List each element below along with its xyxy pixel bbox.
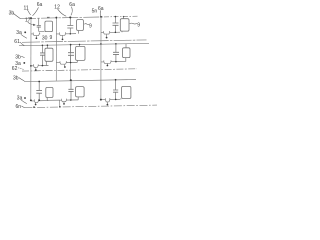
transistor Q11 (31, 32, 40, 35)
junction dots (30, 16, 117, 108)
node C32-L3c (70, 79, 72, 81)
svg-text:3b: 3b (15, 55, 21, 61)
leader 3b row3 (19, 78, 24, 81)
svg-text:9: 9 (89, 23, 92, 29)
gate Q33 (107, 104, 109, 106)
leader 6n (22, 106, 25, 108)
node C22-L2b (70, 44, 72, 46)
node 3a row1 dot (24, 31, 26, 33)
capacitor C32 (71, 80, 78, 100)
node 3a row3 dot (24, 97, 26, 99)
cell box 21 (45, 48, 53, 61)
box 13 top stub (123, 17, 125, 19)
node V2-L1 (55, 17, 57, 19)
leader 3a row1 (21, 34, 27, 38)
squiggle 9 col3 (130, 22, 137, 25)
box 12 bottom stub (78, 31, 80, 34)
node C12-L1 (69, 16, 71, 18)
box 21 top stub (46, 45, 48, 48)
leader 61 (20, 42, 24, 46)
node conn22-L3c (70, 79, 72, 81)
node C23-L2b (115, 43, 117, 45)
bit line V2 (55, 18, 57, 81)
node C31-L3c (38, 81, 40, 83)
capacitor C33 (116, 80, 121, 100)
connector row3 to L4 (59, 100, 61, 107)
cell box 31 (46, 87, 53, 97)
word line pair lower (L2b) (19, 43, 149, 45)
svg-text:61: 61 (14, 39, 20, 45)
box 21 bottom stub (45, 61, 47, 65)
box 31 bottom stub (47, 98, 59, 101)
leader 11 (27, 10, 30, 15)
gate Q13 (106, 37, 108, 39)
gate Q23 (107, 65, 109, 67)
transistor Q23 (101, 60, 116, 63)
leader 62 (18, 68, 23, 70)
node C12 wire (70, 33, 72, 35)
node L4 left (33, 106, 35, 108)
svg-text:62: 62 (12, 66, 18, 72)
gate Q11 (36, 37, 38, 39)
box 23 bottom stub (125, 58, 127, 62)
svg-text:30: 30 (42, 35, 48, 41)
bit line V1 (30, 18, 32, 101)
node 3a row2 dot (23, 62, 25, 64)
box 22 bottom stub (76, 60, 78, 62)
svg-text:6a: 6a (37, 2, 43, 8)
gate Q12 (62, 39, 64, 41)
squiggle 9 col2 (84, 23, 89, 26)
leader lines (13, 7, 137, 108)
node C13 wire (115, 32, 117, 34)
svg-text:3a: 3a (17, 96, 23, 102)
word line 3b (row1 top rail L1) (20, 17, 104, 19)
node box22-L2b (79, 44, 80, 45)
capacitor C22 (71, 45, 78, 63)
cell box 22 (76, 46, 85, 60)
node V3-L2b (100, 43, 102, 45)
svg-text:12: 12 (54, 4, 60, 10)
text labels (9, 2, 141, 110)
node V3 row3 (100, 99, 102, 101)
svg-text:6a: 6a (69, 2, 75, 8)
box 22 top stub (79, 44, 81, 46)
cell box 11 (45, 21, 53, 32)
node C13-L1 (115, 16, 117, 18)
word line pair upper (L2a) (22, 40, 147, 42)
cell box 13 (120, 19, 129, 31)
box 32 bottom stub (77, 97, 79, 100)
leader 17 (28, 22, 33, 25)
transistor Q22 (56, 61, 70, 64)
svg-text:5n: 5n (92, 8, 98, 14)
node C21-L2b (42, 45, 44, 47)
bottom line L4 (24, 105, 157, 108)
gate Q21 (35, 69, 37, 71)
node C23 wire (115, 61, 117, 63)
svg-text:9: 9 (137, 23, 140, 29)
node C33-L3c (115, 79, 117, 81)
leader 3b row2 (21, 56, 24, 57)
svg-text:3b: 3b (13, 76, 19, 82)
transistor Q31 (31, 99, 39, 102)
node C21 wire (42, 65, 44, 67)
gate Q32 (63, 103, 65, 105)
leader 6a col3 (99, 10, 102, 16)
svg-text:6n: 6n (16, 104, 22, 110)
node conn-L4 (59, 106, 61, 108)
cell box 23 (123, 48, 131, 58)
bit line V3 (100, 17, 102, 100)
node C22 wire (70, 62, 72, 64)
capacitor C11 (39, 18, 45, 31)
box 33 bottom stub (120, 98, 122, 99)
node box21-L2b (47, 44, 49, 46)
cell box 33 (122, 86, 131, 98)
node V1 row2 wire (30, 65, 32, 67)
capacitor C23 (116, 44, 126, 62)
transistor Q33 (101, 98, 116, 102)
rail L3c (24, 80, 136, 82)
node C32 wire (70, 99, 72, 101)
svg-text:9: 9 (50, 35, 53, 41)
connector row2 col2 to L3c (70, 45, 72, 81)
capacitor C21 (42, 45, 48, 65)
box 23 top stub (125, 44, 127, 48)
capacitor C31 (39, 82, 48, 101)
leader 6a col2 (71, 7, 72, 16)
node V1-L1 (30, 17, 32, 19)
gate Q31 (35, 104, 37, 106)
svg-text:3b: 3b (9, 10, 15, 16)
cell box 12 (77, 20, 84, 31)
transistor Q32 (60, 99, 71, 102)
svg-text:3a: 3a (16, 30, 22, 36)
gate Q22 (64, 66, 66, 68)
leader 12 (58, 9, 67, 16)
leader 6a col1 (33, 7, 39, 15)
arrowhead 17 (33, 24, 36, 26)
svg-text:11: 11 (24, 6, 29, 12)
node C33 wire (115, 99, 117, 101)
transistor Q13 (101, 31, 115, 34)
transistor Q21 (31, 64, 42, 67)
box 13 bottom stub (121, 31, 123, 32)
box 11 top stub (47, 17, 50, 19)
capacitor C13 (115, 17, 120, 33)
transistor Q12 (56, 32, 70, 35)
node V1 row3 (30, 99, 32, 101)
svg-text:17: 17 (25, 17, 31, 23)
svg-text:6a: 6a (98, 6, 104, 12)
capacitor C12 (70, 17, 76, 34)
node C31 wire (39, 99, 41, 101)
leader 3b top (13, 13, 20, 18)
cell box 32 (76, 87, 85, 97)
node V3-L1 (100, 16, 102, 18)
leader 3a row3 (21, 100, 27, 104)
word line L3a (22, 69, 137, 71)
